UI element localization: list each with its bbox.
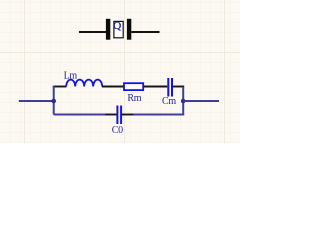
pin: C0 left pin [105,114,117,116]
svg-text:Rm: Rm [127,93,141,104]
capacitor C0: right plate [120,106,122,125]
svg-text:C0: C0 [112,125,123,136]
svg-text:Lm: Lm [64,71,78,82]
pin: inductor Lm left pin [55,86,67,88]
grid minor [0,0,240,143]
capacitor Cm: right plate [171,78,173,97]
node B: right junction dot [181,99,186,104]
capacitor C0: left plate [116,106,118,125]
svg-text:Cm: Cm [162,96,176,107]
wire: left riser (junction to top and bottom branch) [53,87,55,115]
crystal Q: right electrode bar [127,19,131,40]
node A: left junction dot [51,99,56,104]
pin: C0 right pin [122,114,134,116]
crystal Q: body rectangle [114,21,123,37]
crystal Q: left electrode bar [106,19,110,40]
inductor Lm [66,80,102,87]
capacitor Cm: left plate [167,78,169,97]
grid major [0,0,240,143]
svg-text:Q: Q [113,20,121,32]
pin: Cm right pin to top-right corner [173,86,185,88]
wire: bottom branch right segment [134,114,185,116]
resistor Rm [124,83,143,90]
wire: right riser [182,87,184,115]
wire: left lead [19,100,54,102]
wire: right lead [183,100,219,102]
crystal Q: right pin [131,31,159,33]
crystal Q: left pin [79,31,106,33]
pin: wire between Lm and Rm [102,86,124,88]
pin: wire between Rm and Cm [144,86,168,88]
wire: bottom branch left segment [54,114,106,116]
wire: top-left corner stub [53,86,56,88]
